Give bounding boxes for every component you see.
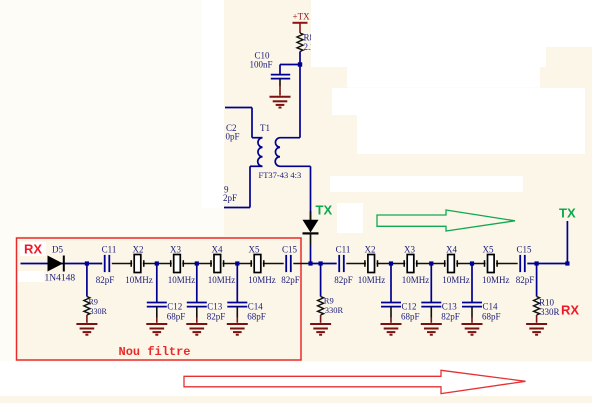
svg-text:RX: RX [561,303,579,318]
svg-text:82pF: 82pF [516,275,535,285]
svg-text:C12: C12 [167,302,182,312]
svg-text:Nou filtre: Nou filtre [119,345,191,359]
svg-text:X3: X3 [170,245,181,255]
svg-text:82pF: 82pF [281,275,300,285]
svg-text:68pF: 68pF [167,312,186,322]
svg-text:C13: C13 [207,302,223,312]
svg-text:X3: X3 [404,245,415,255]
svg-text:10MHz: 10MHz [125,275,153,285]
svg-text:FT37-43 4:3: FT37-43 4:3 [259,170,302,180]
svg-text:C11: C11 [336,245,351,255]
svg-text:10MHz: 10MHz [168,275,196,285]
svg-text:82pF: 82pF [441,312,460,322]
svg-text:C12: C12 [402,302,417,312]
svg-text:X2: X2 [133,245,144,255]
svg-text:TX: TX [559,206,576,221]
svg-text:82pF: 82pF [96,275,115,285]
svg-text:C15: C15 [282,245,298,255]
svg-text:D5: D5 [52,245,63,255]
svg-text:C15: C15 [516,245,532,255]
svg-text:X4: X4 [212,245,223,255]
svg-text:TX: TX [316,203,333,218]
svg-text:68pF: 68pF [482,312,501,322]
svg-text:2pF: 2pF [223,193,237,203]
svg-text:T1: T1 [260,123,270,133]
svg-text:10MHz: 10MHz [402,275,430,285]
svg-text:68pF: 68pF [247,312,266,322]
svg-text:100nF: 100nF [250,60,273,70]
svg-text:X4: X4 [446,245,457,255]
svg-text:C11: C11 [102,245,117,255]
svg-text:82pF: 82pF [334,275,353,285]
svg-text:X5: X5 [483,245,494,255]
svg-text:C14: C14 [483,302,499,312]
svg-text:X2: X2 [365,245,376,255]
svg-text:10MHz: 10MHz [442,275,470,285]
svg-text:0pF: 0pF [226,132,240,142]
svg-text:10MHz: 10MHz [248,275,276,285]
svg-text:330R: 330R [90,307,108,316]
svg-text:330R: 330R [325,305,344,315]
svg-text:10MHz: 10MHz [358,275,386,285]
svg-text:10MHz: 10MHz [208,275,236,285]
svg-text:R9: R9 [89,298,98,307]
svg-text:1N4148: 1N4148 [45,274,76,284]
svg-text:68pF: 68pF [401,312,420,322]
svg-text:C13: C13 [442,302,458,312]
svg-text:82pF: 82pF [207,312,226,322]
svg-text:C14: C14 [248,302,264,312]
svg-text:R9: R9 [324,296,334,306]
svg-text:X5: X5 [249,245,260,255]
svg-text:330R: 330R [540,307,560,317]
svg-text:R10: R10 [539,298,555,308]
svg-text:10MHz: 10MHz [482,275,510,285]
svg-text:+TX: +TX [293,12,311,22]
svg-text:RX: RX [24,242,42,257]
